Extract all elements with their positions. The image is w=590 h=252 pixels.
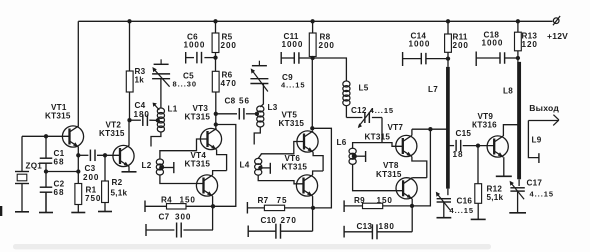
- label C7: [159, 213, 170, 222]
- label C8: [225, 97, 236, 106]
- ground under R2: [98, 203, 112, 212]
- wire VT4 collector: [213, 171, 227, 175]
- wire VT1 collector to rail: [77, 21, 79, 126]
- svg-text:КТ316: КТ316: [472, 121, 497, 130]
- svg-text:4...15: 4...15: [370, 106, 394, 115]
- svg-text:1000: 1000: [409, 40, 431, 49]
- svg-text:5,1k: 5,1k: [487, 193, 504, 202]
- label VT6: [285, 154, 301, 163]
- node L2 tap: [159, 165, 163, 169]
- svg-text:150: 150: [180, 196, 196, 205]
- scan artifact bottom strip: [13, 244, 491, 249]
- label R4: [161, 196, 172, 205]
- label C5 value: [173, 80, 197, 89]
- wire L1 bottom stub: [151, 132, 161, 147]
- label VT2: [106, 121, 122, 130]
- label VT7 KT315: [365, 133, 391, 142]
- label ZQ1: [26, 162, 43, 171]
- wire L4 bottom to VT6 base: [258, 175, 303, 184]
- resistor R5: [212, 21, 219, 52]
- inductor L9 coupling loop: [528, 121, 539, 164]
- wire VT3 collector loop: [213, 125, 236, 207]
- node VT4 emitter junction: [211, 204, 215, 208]
- wire VT5 emitter jog: [313, 152, 323, 171]
- capacitor C12 trimmer: [346, 109, 382, 129]
- svg-text:L7: L7: [428, 85, 438, 94]
- transistor VT7: [396, 135, 417, 156]
- label L7: [428, 85, 438, 94]
- wire L3 bottom stub: [254, 127, 260, 145]
- svg-text:KT315: KT315: [376, 170, 402, 179]
- ground under R12: [471, 203, 486, 219]
- inductor L1: [153, 103, 165, 132]
- label R13: [522, 32, 538, 41]
- label R13 value: [522, 40, 538, 49]
- label VT1 KT315: [45, 112, 71, 121]
- label VT4 KT315: [185, 160, 211, 169]
- label VT8 KT315: [376, 170, 402, 179]
- svg-text:L4: L4: [240, 161, 250, 170]
- wire C12 to VT7 base riser: [381, 118, 383, 143]
- label VT1: [51, 103, 67, 112]
- svg-text:L6: L6: [337, 138, 347, 147]
- label C4 value: [134, 110, 150, 119]
- resistor R11: [445, 21, 452, 52]
- label Vyhod: [529, 103, 559, 113]
- ground under R1: [71, 205, 85, 213]
- capacitor C3: [78, 150, 120, 162]
- transistor VT2: [113, 145, 134, 166]
- ground under C17: [509, 191, 526, 213]
- node emitter-C3 junction: [76, 153, 80, 157]
- svg-text:120: 120: [522, 40, 538, 49]
- svg-text:56: 56: [239, 97, 250, 106]
- wire L6 top to VT7 base: [353, 143, 403, 149]
- wire VT9 collector riser: [503, 125, 519, 136]
- capacitor C11: [281, 52, 312, 64]
- svg-text:200: 200: [221, 41, 237, 50]
- label C1 value: [54, 158, 65, 167]
- svg-text:KT315: KT315: [45, 112, 71, 121]
- node C8 junction: [214, 112, 218, 116]
- svg-text:180: 180: [134, 110, 150, 119]
- svg-text:150: 150: [377, 196, 393, 205]
- svg-text:4...15: 4...15: [281, 81, 305, 90]
- svg-text:L5: L5: [359, 84, 369, 93]
- label C2: [54, 180, 65, 189]
- ground under C2: [39, 192, 53, 212]
- label L9: [532, 136, 542, 145]
- wire R8 node to L5: [313, 58, 347, 81]
- svg-text:C8: C8: [225, 97, 236, 106]
- node C3-R2 junction: [103, 153, 107, 157]
- node R13-C18 junction: [516, 56, 520, 60]
- svg-text:C17: C17: [527, 179, 543, 188]
- wire R5 to R6: [215, 53, 217, 72]
- svg-text:VT7: VT7: [388, 123, 404, 132]
- ground under C16: [437, 202, 452, 218]
- capacitor C10: [248, 224, 312, 239]
- label C14: [411, 32, 427, 41]
- label R2: [112, 178, 123, 187]
- svg-text:L1: L1: [168, 105, 178, 114]
- label C6: [187, 33, 198, 42]
- resistor R3: [126, 21, 133, 92]
- label L1: [168, 105, 178, 114]
- svg-text:8...30: 8...30: [173, 80, 197, 89]
- wire R6 to VT3 node: [215, 92, 217, 129]
- svg-text:R2: R2: [112, 178, 123, 187]
- label VT5 KT315: [279, 119, 305, 128]
- label C10 value: [281, 216, 297, 225]
- transistor VT3: [200, 128, 221, 149]
- label VT4: [191, 151, 207, 160]
- svg-text:18: 18: [453, 150, 464, 159]
- ground under ZQ1: [15, 206, 29, 212]
- capacitor C9 trimmer: [250, 61, 268, 92]
- wire L4 tap tick: [260, 163, 270, 174]
- svg-text:5,1k: 5,1k: [111, 189, 128, 198]
- label R3 value: [135, 76, 145, 85]
- svg-text:KT315: KT315: [185, 113, 211, 122]
- capacitor C14: [403, 52, 448, 66]
- +12V terminal: [553, 16, 560, 25]
- capacitor C18: [476, 52, 518, 67]
- label L5: [359, 84, 369, 93]
- node L4 tap: [258, 166, 262, 170]
- capacitor C16 trimmer: [436, 192, 451, 211]
- label R2 value: [111, 189, 128, 198]
- svg-text:C13: C13: [357, 222, 373, 231]
- node C15-R12 junction: [476, 143, 480, 147]
- capacitor C4: [130, 114, 158, 126]
- svg-text:L9: L9: [532, 136, 542, 145]
- label R7: [258, 196, 269, 205]
- svg-text:KT315: KT315: [279, 119, 305, 128]
- svg-text:C7: C7: [159, 213, 170, 222]
- node R5-C6 junction: [213, 55, 217, 59]
- label C11 value: [282, 40, 304, 49]
- wire VT3 emitter jog: [217, 150, 227, 171]
- ground VT9 emitter: [496, 157, 512, 176]
- node VT8 emitter junction: [410, 204, 414, 208]
- node C1-C2 junction: [44, 169, 48, 173]
- label C12 value: [370, 106, 394, 115]
- inductor L5: [343, 81, 350, 106]
- svg-text:200: 200: [453, 41, 469, 50]
- label C10: [261, 216, 277, 225]
- svg-text:KT315: KT315: [185, 160, 211, 169]
- label C17: [527, 179, 543, 188]
- svg-text:300: 300: [175, 213, 191, 222]
- label R12: [487, 185, 503, 194]
- wire VT4 emitter: [212, 196, 214, 230]
- label +12V: [547, 31, 568, 41]
- label R9: [354, 196, 365, 205]
- wire VT6 collector: [313, 171, 324, 175]
- node VT7 collector junction: [428, 127, 432, 131]
- transistor VT9: [487, 136, 508, 157]
- wire R3 to C4 node: [129, 92, 131, 120]
- wire R8 node to VT5 collectors: [311, 58, 313, 128]
- wire VT6 emitter: [312, 196, 314, 231]
- label C7 value: [175, 213, 191, 222]
- label R7 value: [277, 196, 288, 205]
- svg-text:1000: 1000: [282, 40, 304, 49]
- label C18 value: [482, 39, 504, 48]
- transistor VT1: [62, 126, 83, 147]
- svg-text:R9: R9: [354, 196, 365, 205]
- wire L2 tap tick: [161, 162, 174, 173]
- resistor R13: [515, 21, 522, 51]
- label C16: [457, 196, 473, 205]
- label VT3 KT315: [185, 113, 211, 122]
- capacitor C2: [40, 172, 53, 213]
- svg-text:270: 270: [281, 216, 297, 225]
- wire VT2 collector riser: [128, 120, 130, 145]
- label C16 value: [450, 206, 474, 215]
- label R5 value: [221, 41, 237, 50]
- label R8 value: [319, 41, 335, 50]
- label VT9 KT316: [472, 121, 497, 130]
- capacitor C8: [216, 108, 257, 120]
- svg-text:KT315: KT315: [99, 129, 125, 138]
- capacitor C7: [146, 223, 213, 238]
- wire VT7 collector riser: [412, 129, 448, 135]
- label L8: [503, 87, 513, 96]
- wire +12V power rail: [78, 20, 552, 22]
- svg-text:1000: 1000: [184, 41, 206, 50]
- label C12: [351, 106, 367, 115]
- resistor R7: [247, 202, 313, 214]
- wire VT8 emitter: [411, 199, 413, 232]
- capacitor C1: [40, 136, 53, 171]
- label L2: [142, 161, 152, 170]
- svg-text:KT315: KT315: [282, 163, 308, 172]
- label R12 value: [487, 193, 504, 202]
- resistor R8: [309, 21, 316, 56]
- svg-text:C16: C16: [457, 196, 473, 205]
- capacitor C6: [186, 52, 216, 64]
- wire L5 bottom to C12: [345, 106, 347, 118]
- label C3: [85, 164, 96, 173]
- label L6: [337, 138, 347, 147]
- label C13 value: [379, 222, 395, 231]
- node L3 tap: [255, 112, 259, 116]
- svg-text:470: 470: [221, 79, 237, 88]
- node R8-C11 junction: [310, 56, 314, 60]
- node rail-R3: [127, 19, 131, 23]
- node L6 tap: [352, 154, 356, 158]
- label R1 value: [85, 194, 101, 203]
- label VT7: [388, 123, 404, 132]
- node rail-R5: [213, 19, 217, 23]
- label L3: [268, 103, 278, 112]
- node L1 tap: [156, 118, 160, 122]
- label R5: [222, 33, 233, 42]
- transistor VT4: [196, 175, 217, 196]
- label VT3: [193, 104, 209, 113]
- svg-text:C10: C10: [261, 216, 277, 225]
- svg-text:68: 68: [54, 158, 65, 167]
- wire L4 top to VT5 base: [258, 142, 304, 159]
- label R9 value: [377, 196, 393, 205]
- label R3: [135, 67, 146, 76]
- capacitor C15: [450, 140, 495, 152]
- node base-C1 junction: [44, 134, 48, 138]
- svg-text:C4: C4: [135, 101, 146, 110]
- label C18: [484, 31, 500, 40]
- svg-text:4...15: 4...15: [450, 206, 474, 215]
- label VT9: [478, 112, 494, 121]
- svg-text:L8: L8: [503, 87, 513, 96]
- inductor L4: [255, 158, 262, 175]
- svg-text:75: 75: [277, 196, 288, 205]
- label C9: [282, 73, 293, 82]
- crystal ZQ1: [15, 136, 29, 205]
- node rail-R11: [446, 19, 450, 23]
- label C13: [357, 222, 373, 231]
- svg-text:KT315: KT315: [365, 133, 391, 142]
- label C5: [183, 72, 194, 81]
- scan artifact left edge: [0, 206, 2, 216]
- label C3 value: [83, 173, 99, 182]
- label VT5: [282, 111, 298, 120]
- svg-text:C12: C12: [351, 106, 367, 115]
- wire VT7 emitter jog: [412, 157, 427, 178]
- node VT3 collector junction: [214, 122, 218, 126]
- resistor R6: [212, 71, 219, 92]
- wire VT5 collector loop: [312, 128, 331, 208]
- svg-text:Выход: Выход: [529, 103, 559, 113]
- label R11 value: [453, 41, 469, 50]
- inductor L3: [257, 106, 264, 127]
- label R6 value: [221, 79, 237, 88]
- label R6: [222, 71, 233, 80]
- wire L6 bottom to VT8 base: [353, 164, 404, 190]
- node R11-C14 junction: [446, 56, 450, 60]
- svg-text:1k: 1k: [135, 76, 145, 85]
- ground VT2 emitter: [122, 166, 137, 171]
- svg-text:L3: L3: [268, 103, 278, 112]
- label C2 value: [54, 188, 65, 197]
- label R8: [320, 33, 331, 42]
- node rail-R13: [516, 19, 520, 23]
- svg-text:1000: 1000: [482, 39, 504, 48]
- wire C1C2 to emitter: [46, 171, 78, 173]
- node C4 junction: [127, 118, 131, 122]
- svg-text:200: 200: [83, 173, 99, 182]
- resistor R2: [102, 155, 109, 202]
- label R1: [86, 186, 97, 195]
- wire VT7 collector loop: [412, 129, 431, 206]
- resistor R1: [75, 184, 82, 205]
- label C4: [135, 101, 146, 110]
- label C15 value: [453, 150, 464, 159]
- svg-text:4...15: 4...15: [530, 190, 554, 199]
- wire L3 top to C9: [260, 84, 263, 107]
- node VT6 emitter junction: [311, 206, 315, 210]
- svg-text:R4: R4: [161, 196, 172, 205]
- label R4 value: [180, 196, 196, 205]
- wire L6 tap tick: [354, 151, 366, 162]
- svg-text:L2: L2: [142, 161, 152, 170]
- capacitor C5 trimmer: [152, 59, 170, 86]
- node emitter junction: [76, 169, 80, 173]
- label R11: [453, 33, 468, 42]
- label C17 value: [530, 190, 554, 199]
- node VT5 collector junction: [310, 126, 314, 130]
- resistor R4: [145, 201, 213, 213]
- inductor L8: [518, 51, 519, 186]
- svg-text:C3: C3: [85, 164, 96, 173]
- label C6 value: [184, 41, 206, 50]
- svg-text:+12V: +12V: [547, 31, 568, 41]
- wire L2 bottom to VT4 base: [160, 175, 204, 184]
- label L4: [240, 161, 250, 170]
- svg-text:R7: R7: [258, 196, 269, 205]
- transistor VT5: [297, 131, 318, 152]
- capacitor C17 trimmer: [510, 181, 525, 200]
- inductor L2: [156, 159, 163, 175]
- inductor L7: [447, 52, 449, 195]
- label VT6 KT315: [282, 163, 308, 172]
- label C11: [284, 32, 299, 41]
- svg-text:C15: C15: [456, 129, 472, 138]
- resistor R12: [475, 146, 482, 204]
- wire VT1 base: [22, 135, 70, 137]
- inductor L6: [349, 148, 356, 164]
- wire output arrow: [528, 115, 559, 126]
- transistor VT8: [396, 178, 417, 199]
- svg-text:200: 200: [319, 41, 335, 50]
- label C1: [54, 149, 65, 158]
- svg-text:68: 68: [54, 188, 65, 197]
- resistor R9: [344, 200, 412, 212]
- svg-text:180: 180: [379, 222, 395, 231]
- wire L2 top to VT3 base: [160, 139, 208, 159]
- svg-text:750: 750: [85, 194, 101, 203]
- wire L1 top to C5: [160, 79, 162, 108]
- label C15: [456, 129, 472, 138]
- svg-text:VT8: VT8: [383, 161, 399, 170]
- wire VT8 collector: [412, 177, 427, 179]
- label C9 value: [281, 81, 305, 90]
- label C8 value: [239, 97, 250, 106]
- capacitor C13: [344, 224, 412, 239]
- label VT8: [383, 161, 399, 170]
- label VT2 KT315: [99, 129, 125, 138]
- transistor VT6: [296, 175, 317, 196]
- label C14 value: [409, 40, 431, 49]
- wire VT1 emitter: [77, 147, 79, 184]
- node rail-R8: [310, 19, 314, 23]
